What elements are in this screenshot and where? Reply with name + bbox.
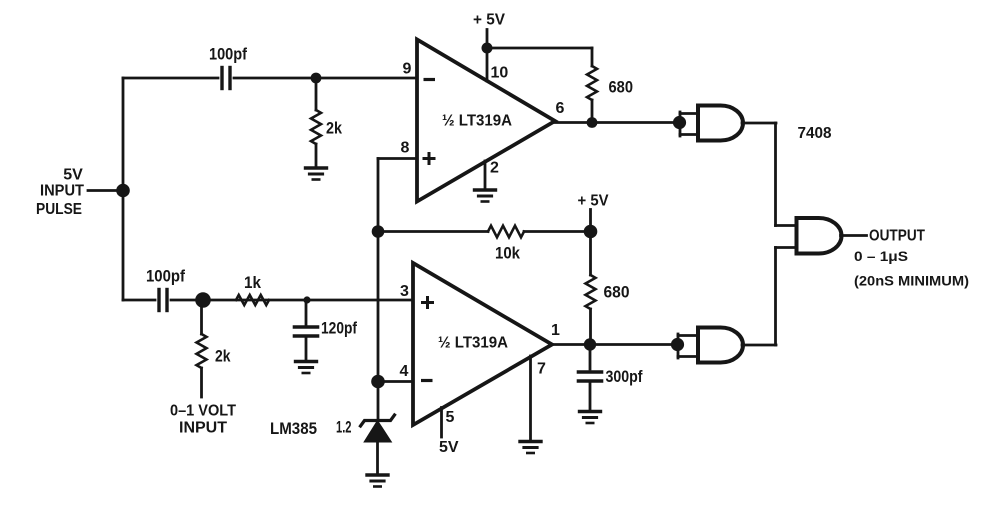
svg-text:3: 3 <box>400 283 409 300</box>
svg-text:680: 680 <box>604 283 630 302</box>
svg-text:2k: 2k <box>215 347 231 366</box>
svg-text:100pf: 100pf <box>209 45 247 64</box>
svg-text:7: 7 <box>537 361 546 378</box>
svg-text:+ 5V: + 5V <box>473 12 505 29</box>
svg-text:120pf: 120pf <box>321 319 357 338</box>
svg-text:INPUT: INPUT <box>40 183 84 200</box>
svg-text:(20nS MINIMUM): (20nS MINIMUM) <box>854 274 969 289</box>
svg-text:1k: 1k <box>244 273 261 292</box>
svg-text:4: 4 <box>400 363 409 380</box>
svg-text:680: 680 <box>609 78 634 97</box>
svg-text:8: 8 <box>401 140 410 157</box>
svg-text:10k: 10k <box>495 244 520 263</box>
svg-text:9: 9 <box>403 61 412 78</box>
svg-text:5V: 5V <box>439 439 459 456</box>
svg-text:0–1 VOLT: 0–1 VOLT <box>170 403 236 420</box>
svg-text:2: 2 <box>490 160 499 177</box>
svg-text:100pf: 100pf <box>146 267 185 286</box>
svg-text:1.2: 1.2 <box>336 418 352 437</box>
svg-text:INPUT: INPUT <box>179 420 227 437</box>
svg-text:0 – 1μS: 0 – 1μS <box>854 248 908 264</box>
svg-text:½ LT319A: ½ LT319A <box>442 113 512 130</box>
svg-text:PULSE: PULSE <box>36 201 82 218</box>
svg-text:OUTPUT: OUTPUT <box>869 228 925 245</box>
svg-text:5V: 5V <box>63 167 83 184</box>
svg-text:6: 6 <box>556 100 565 117</box>
svg-text:+ 5V: + 5V <box>578 193 609 210</box>
svg-text:300pf: 300pf <box>606 367 643 386</box>
svg-text:1: 1 <box>551 322 560 339</box>
svg-text:2k: 2k <box>326 119 342 138</box>
svg-text:½ LT319A: ½ LT319A <box>438 335 508 352</box>
svg-text:LM385: LM385 <box>270 419 317 438</box>
svg-text:7408: 7408 <box>798 125 832 142</box>
svg-text:10: 10 <box>491 65 509 82</box>
svg-text:5: 5 <box>446 409 455 426</box>
